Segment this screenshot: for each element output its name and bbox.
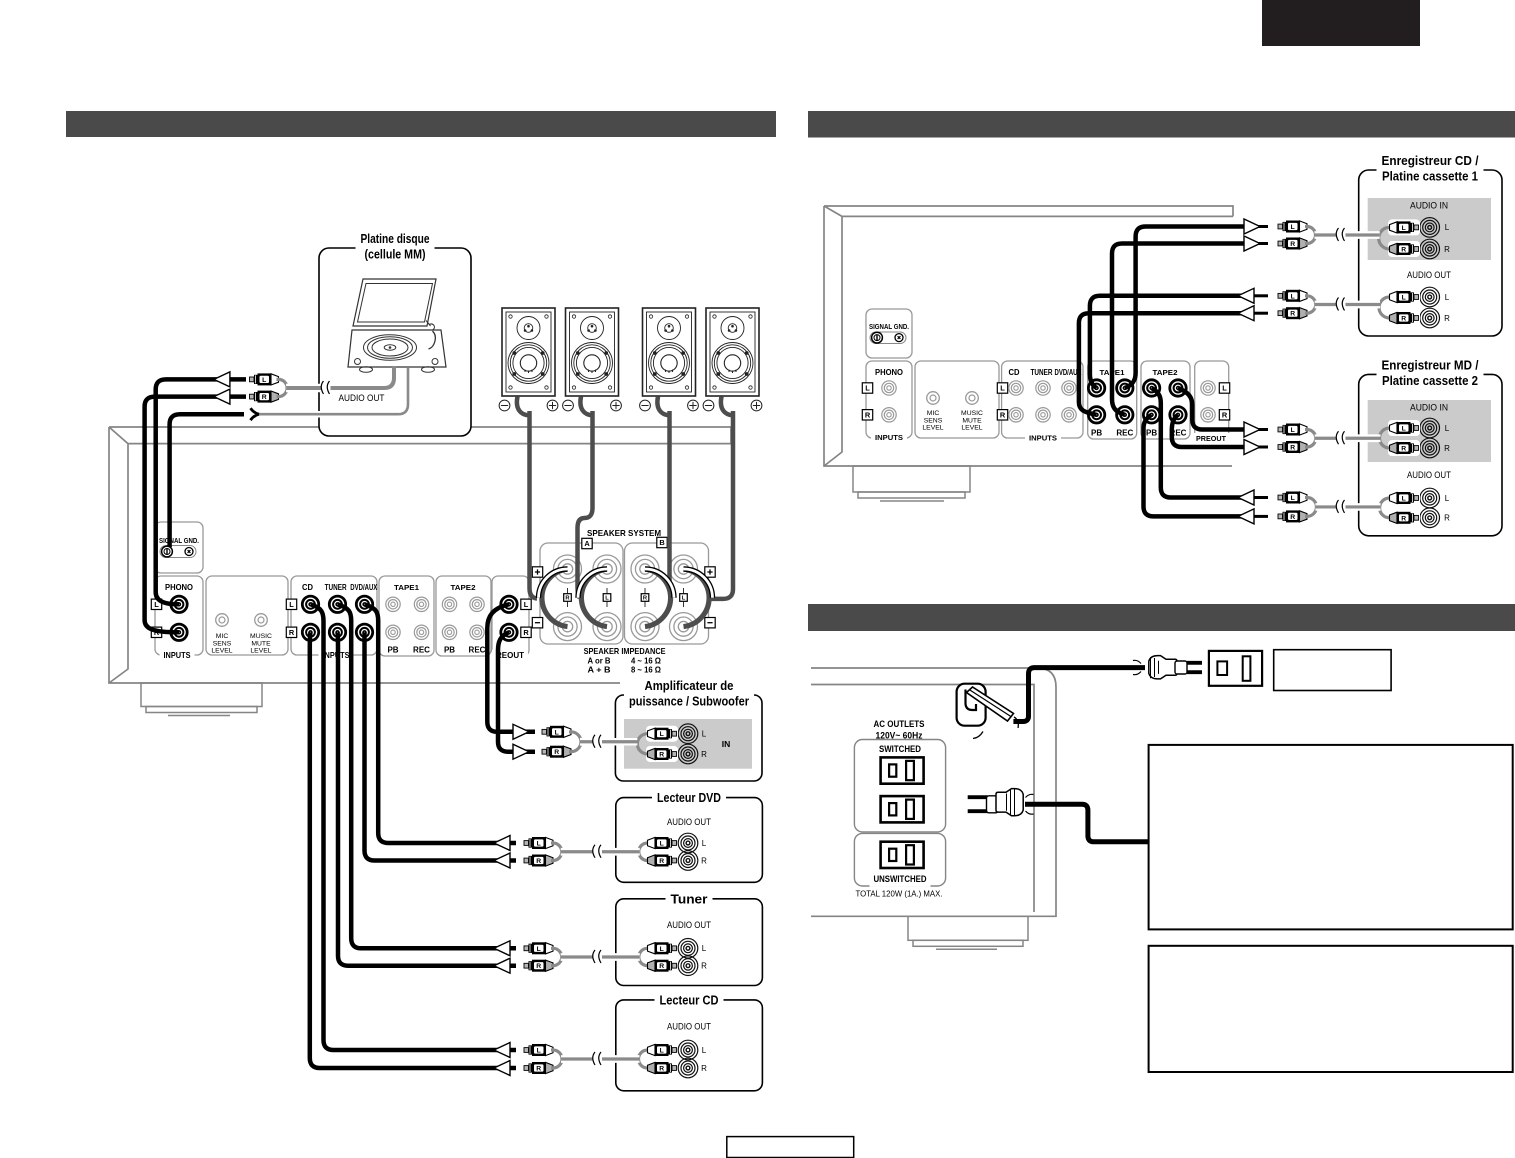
RCA jack TAPE1 PB R (amp 2) — [1088, 407, 1104, 423]
panel: TAPE2 (amp 1) — [436, 576, 491, 656]
arrow: Tuner L into amp — [494, 941, 510, 956]
box: Lecteur DVD — [616, 798, 763, 883]
wall outlet — [1209, 651, 1262, 686]
svg-text:MIC: MIC — [216, 633, 229, 640]
speaker AL wire loop — [580, 397, 593, 416]
RCA plug recorder 1 audio in L (amp side) — [1278, 221, 1307, 233]
RCA plug subwoofer L — [542, 726, 571, 738]
RCA jack CD R (amp 2) — [1009, 408, 1023, 422]
speaker AL — [566, 308, 619, 396]
ground fork terminal — [251, 408, 260, 420]
RCA plug recorder 1 audio in device R — [1390, 243, 1419, 255]
svg-text:REC: REC — [469, 646, 486, 655]
svg-text:R: R — [701, 1064, 707, 1073]
svg-text:TUNER: TUNER — [1031, 368, 1053, 377]
svg-text:LEVEL: LEVEL — [250, 648, 271, 655]
box: Tuner — [616, 899, 763, 986]
svg-text:L: L — [1402, 496, 1406, 503]
speaker terminal + col1 — [554, 555, 582, 583]
panel: SPEAKER SYSTEM B — [625, 543, 709, 644]
svg-text:L: L — [702, 839, 707, 848]
RCA jack TAPE1 PB R (amp 1) — [386, 625, 400, 639]
svg-text:R: R — [1290, 445, 1295, 452]
RCA plug recorder 1 audio in device L — [1390, 221, 1419, 233]
svg-text:REC: REC — [1116, 429, 1133, 438]
panel: SIGNAL GND (amp 2) — [866, 309, 912, 358]
wire: REOUT L to subwoofer — [487, 604, 535, 732]
mic sens level control (amp 2) — [927, 392, 940, 405]
halo plug recorder 2 audio in device L — [1388, 420, 1420, 436]
amplifier 1 foot — [141, 683, 262, 716]
RCA jack TAPE2 REC L (amp 1) — [470, 597, 484, 611]
RCA jack Lecteur CD OUT L — [678, 1040, 698, 1060]
turntable illustration — [348, 279, 446, 372]
channel marker R col3 — [644, 588, 646, 607]
wire: stub recorder2 in L — [1252, 428, 1268, 431]
wire: stub recorder1 in L — [1252, 225, 1268, 228]
svg-text:CD: CD — [302, 583, 313, 592]
svg-text:UNSWITCHED: UNSWITCHED — [874, 874, 927, 885]
RCA jack TAPE1 PB L (amp 1) — [386, 597, 400, 611]
speaker terminal + col2 — [593, 555, 621, 583]
node L (inputs amp 2) — [997, 383, 1007, 393]
cable: turntable audio out — [286, 384, 383, 393]
svg-text:L: L — [1445, 494, 1450, 503]
cable break: Tuner line — [593, 951, 602, 963]
RCA plug Lecteur CD L — [524, 1044, 553, 1056]
AC outlet switched 1 — [881, 757, 924, 783]
box: Enregistreur MD / Platine cassette 2 — [1359, 374, 1502, 535]
svg-text:L: L — [660, 731, 664, 738]
AC plug (wall) — [1133, 660, 1141, 674]
RCA jack TAPE2 PB L (amp 1) — [442, 597, 456, 611]
svg-text:SENS: SENS — [213, 640, 232, 647]
svg-text:PB: PB — [387, 646, 398, 655]
node L (PHONO amp 2) — [862, 383, 872, 393]
box: Enregistreur CD / Platine cassette 1 — [1359, 170, 1502, 336]
svg-text:R: R — [1000, 410, 1006, 419]
wire: speaker A-R to terminals — [530, 411, 538, 599]
svg-text:Platine disque: Platine disque — [361, 231, 430, 246]
cable loop: Tuner device plugs — [639, 948, 650, 965]
node R (PHONO amp 1) — [151, 627, 161, 637]
RCA jack PHONO L (amp 1) — [171, 596, 187, 612]
RCA jack TAPE2 PB L (amp 2) — [1143, 380, 1159, 396]
svg-text:MUSIC: MUSIC — [250, 633, 272, 640]
cable break: Lecteur DVD line — [593, 846, 602, 858]
panel: TAPE1 (amp 2) — [1088, 361, 1137, 439]
note box 2 — [1149, 946, 1513, 1072]
RCA plug subwoofer R — [542, 746, 571, 758]
RCA jack TAPE2 REC R (amp 2) — [1170, 407, 1186, 423]
node R (inputs amp 2) — [997, 410, 1007, 420]
svg-text:L: L — [1222, 384, 1227, 393]
terminal jumper cable col2 — [581, 569, 607, 627]
svg-text:PHONO: PHONO — [165, 583, 193, 592]
label box (wall outlet note) — [1274, 650, 1391, 691]
RCA jack AUDIO OUT L (Enregistreur MD /) — [1420, 488, 1440, 508]
RCA plug Tuner device L — [648, 942, 677, 954]
node L (PREOUT amp 2) — [1219, 383, 1229, 393]
arrow: recorder 1 audio out L — [1238, 288, 1254, 303]
cable loop: Lecteur CD plugs — [551, 1050, 562, 1068]
cable loop: subwoofer device plugs — [637, 734, 649, 754]
speaker terminal - col4 — [670, 613, 698, 641]
speaker AR wire loop — [517, 397, 530, 416]
arrow: Lecteur DVD L into amp — [494, 836, 510, 851]
arrow: to subwoofer R — [513, 744, 529, 759]
note box 1 — [1149, 745, 1513, 930]
RCA jack AUDIO IN L (Enregistreur MD /) — [1420, 418, 1440, 438]
cable loop: Lecteur DVD plugs — [551, 843, 562, 861]
svg-text:R: R — [554, 749, 559, 756]
svg-text:R: R — [865, 410, 871, 419]
wire: stub recorder2 out L — [1252, 496, 1268, 499]
speaker BL terminals — [703, 400, 762, 411]
svg-text:Platine cassette 2: Platine cassette 2 — [1382, 373, 1478, 388]
ground screw 1 (amp 2) — [872, 332, 883, 343]
RCA plug recorder 1 audio out device R — [1390, 312, 1419, 324]
speaker BL wire loop — [721, 397, 734, 416]
wire: Lecteur DVD L to amp — [365, 604, 517, 843]
svg-text:L: L — [555, 729, 559, 736]
RCA jack TUNER R (amp 1) — [329, 624, 345, 640]
gray zone: AUDIO IN (Enregistreur MD /) — [1368, 400, 1491, 462]
music mute level control (amp 2) — [966, 392, 979, 405]
node L (PHONO amp 1) — [151, 599, 161, 609]
speaker terminal + col4 — [670, 555, 698, 583]
svg-text:L: L — [1291, 293, 1295, 300]
amplifier 2 rear panel outline — [824, 206, 1233, 466]
channel marker R col1 — [567, 588, 569, 607]
svg-text:R: R — [536, 1066, 541, 1073]
svg-text:R: R — [1401, 247, 1406, 254]
cable break: recorder 2 audio out — [1337, 501, 1346, 513]
panel: PHONO (amp 2) — [866, 361, 912, 438]
svg-text:L: L — [1445, 223, 1450, 232]
RCA jack DVD/AUX L (amp 2) — [1062, 381, 1076, 395]
svg-text:R: R — [536, 963, 541, 970]
svg-text:R: R — [1290, 241, 1295, 248]
RCA plug recorder 1 audio out R (amp side) — [1278, 307, 1307, 319]
RCA plug Lecteur DVD L — [524, 837, 553, 849]
cable loop: recorder 2 audio out amp side — [1305, 498, 1316, 517]
svg-text:L: L — [702, 944, 707, 953]
node B (speaker system) — [657, 537, 667, 547]
RCA plug Tuner R — [524, 960, 553, 972]
RCA jack CD L (amp 1) — [302, 596, 318, 612]
power cord through bracket — [967, 687, 1014, 721]
RCA plug subwoofer device L — [648, 728, 677, 740]
svg-text:IN: IN — [722, 739, 731, 749]
node R (PREOUT amp 2) — [1219, 410, 1229, 420]
speaker terminal - col1 — [554, 613, 582, 641]
RCA jack AUDIO IN R (Enregistreur MD /) — [1420, 438, 1440, 458]
svg-text:CD: CD — [1009, 368, 1020, 377]
RCA plug Lecteur DVD device L — [648, 837, 677, 849]
svg-text:AUDIO OUT: AUDIO OUT — [339, 393, 385, 403]
svg-text:AUDIO OUT: AUDIO OUT — [667, 817, 711, 827]
wire: speaker A-L to terminals — [578, 411, 593, 598]
arrow: Tuner R into amp — [494, 958, 510, 973]
wire: TAPE1 REC R to recorder 1 — [1112, 244, 1244, 415]
RCA jack TAPE2 PB R (amp 2) — [1143, 407, 1159, 423]
RCA plug recorder 2 audio out L (amp side) — [1278, 492, 1307, 504]
RCA jack Lecteur DVD OUT L — [678, 833, 698, 853]
wire: turntable ground lead — [257, 411, 398, 418]
halo plug recorder 1 audio in device R — [1388, 241, 1420, 257]
RCA jack TAPE1 REC L (amp 2) — [1117, 380, 1133, 396]
svg-text:L: L — [660, 841, 664, 848]
RCA jack PREOUT R (amp 2) — [1201, 408, 1215, 422]
svg-text:R: R — [659, 1066, 664, 1073]
svg-text:LEVEL: LEVEL — [922, 425, 943, 432]
svg-text:INPUTS: INPUTS — [1029, 434, 1057, 443]
label INPUTS (phono amp 2) — [871, 432, 907, 445]
wire: stub recorder1 out R — [1252, 312, 1268, 315]
wire: Lecteur CD R to amp — [310, 632, 516, 1068]
wire: Tuner L to amp — [338, 604, 517, 948]
plus terminal label left — [532, 567, 542, 577]
svg-text:R: R — [1401, 316, 1406, 323]
svg-text:L: L — [682, 596, 686, 602]
music mute level control — [255, 614, 268, 627]
RCA plug Lecteur DVD R — [524, 855, 553, 867]
wire: phono R cable — [145, 397, 246, 633]
svg-text:L: L — [289, 600, 294, 609]
svg-text:AUDIO OUT: AUDIO OUT — [667, 920, 711, 930]
RCA jack TAPE2 PB R (amp 1) — [442, 625, 456, 639]
RCA jack DVD/AUX R (amp 1) — [356, 624, 372, 640]
RCA plug recorder 2 audio in R (amp side) — [1278, 441, 1307, 453]
RCA jack CD R (amp 1) — [302, 624, 318, 640]
svg-text:PHONO: PHONO — [875, 368, 903, 377]
cable break: turntable audio — [322, 382, 331, 394]
wire: recorder 2 out L to TAPE2 PB L — [1152, 388, 1244, 498]
power section header bar — [808, 604, 1515, 631]
svg-text:L: L — [660, 1048, 664, 1055]
cable loop: recorder 1 audio out amp side — [1305, 296, 1316, 313]
RCA jack TAPE1 REC R (amp 2) — [1117, 407, 1133, 423]
cable: Lecteur CD line — [561, 1055, 640, 1063]
svg-text:R: R — [1401, 515, 1406, 522]
RCA jack TAPE1 REC R (amp 1) — [414, 625, 428, 639]
RCA plug phono L — [250, 373, 279, 385]
svg-text:L: L — [537, 946, 541, 953]
svg-text:TAPE2: TAPE2 — [1153, 368, 1178, 377]
wire: accessory power cord — [1025, 804, 1149, 842]
svg-text:TAPE1: TAPE1 — [394, 583, 419, 592]
amplifier 3 rear panel outline — [811, 668, 1056, 917]
wire: recorder 2 out R to TAPE2 PB R — [1144, 415, 1245, 517]
box: Lecteur CD — [616, 1000, 763, 1091]
ground screw link plate (amp 1) — [160, 546, 196, 558]
RCA plug Lecteur DVD device R — [648, 855, 677, 867]
svg-text:L: L — [1402, 225, 1406, 232]
gray zone: AUDIO IN (Enregistreur CD /) — [1368, 198, 1491, 260]
cable loop: Tuner plugs — [551, 948, 562, 965]
RCA jack Tuner OUT L — [678, 939, 698, 959]
RCA jack AUDIO IN R (Enregistreur CD /) — [1420, 239, 1440, 259]
mic sens level control — [216, 614, 229, 627]
arrow: recorder 2 audio out R — [1238, 509, 1254, 524]
svg-text:L: L — [660, 946, 664, 953]
svg-text:PB: PB — [1146, 429, 1157, 438]
label INPUTS (phono amp 1) — [160, 649, 195, 663]
RCA plug recorder 2 audio in device L — [1390, 422, 1419, 434]
svg-text:8 ~ 16 Ω: 8 ~ 16 Ω — [631, 666, 662, 675]
cable: recorder 1 audio out line — [1315, 301, 1380, 309]
cable: recorder 2 audio in line — [1315, 434, 1381, 442]
svg-text:MUTE: MUTE — [962, 417, 982, 424]
svg-text:R: R — [1444, 245, 1450, 254]
cable loop: recorder 1 audio in amp side — [1305, 227, 1316, 244]
arrow: Lecteur DVD R into amp — [494, 853, 510, 868]
wire: stub recorder2 in R — [1252, 446, 1268, 449]
panel: CD TUNER DVD/AUX inputs (amp 2) — [1002, 361, 1083, 438]
svg-text:PB: PB — [1091, 429, 1102, 438]
cable: subwoofer line — [580, 738, 605, 746]
svg-text:L: L — [524, 600, 529, 609]
RCA plug recorder 2 audio out R (amp side) — [1278, 510, 1307, 522]
arrow: recorder 1 audio in L — [1244, 219, 1260, 234]
RCA jack TAPE2 REC R (amp 1) — [470, 625, 484, 639]
halo plug recorder 2 audio in device R — [1388, 440, 1420, 456]
label AUDIO OUT (turntable) — [335, 392, 389, 406]
svg-text:R: R — [289, 628, 295, 637]
RCA jack TAPE2 REC L (amp 2) — [1170, 380, 1186, 396]
RCA jack PHONO R (amp 1) — [171, 624, 187, 640]
RCA jack AUDIO OUT L (Enregistreur CD /) — [1420, 287, 1440, 307]
cable loop: subwoofer plugs — [569, 732, 581, 752]
ground screw 2 (amp 2) — [895, 334, 903, 342]
cable: subwoofer line into box — [604, 738, 637, 746]
svg-text:SWITCHED: SWITCHED — [879, 744, 921, 755]
svg-text:L: L — [702, 1046, 707, 1055]
label PREOUT (amp 2) — [1192, 433, 1230, 446]
RCA plug Lecteur CD device L — [648, 1044, 677, 1056]
amplifier 1 rear panel outline — [109, 427, 731, 683]
svg-text:MUSIC: MUSIC — [961, 410, 983, 417]
cable loop: recorder 2 audio in amp side — [1305, 430, 1316, 448]
RCA jack subwoofer IN L — [678, 724, 698, 744]
boxed letter R col1 — [564, 594, 572, 602]
wire: Lecteur DVD R to amp — [365, 632, 517, 860]
svg-text:DVD/AUX: DVD/AUX — [350, 583, 377, 592]
panel: PHONO (amp 1) — [155, 576, 203, 655]
panel: SWITCHED outlets — [854, 740, 945, 833]
svg-text:L: L — [1445, 293, 1450, 302]
svg-text:R: R — [659, 963, 664, 970]
page number box — [727, 1137, 854, 1158]
cable loop: recorder 2 audio out device side — [1380, 498, 1392, 518]
svg-text:R: R — [523, 628, 529, 637]
RCA jack PHONO L (amp 2) — [882, 381, 896, 395]
svg-text:L: L — [262, 377, 266, 384]
RCA plug recorder 2 audio in device R — [1390, 442, 1419, 454]
RCA jack Tuner OUT R — [678, 956, 698, 976]
RCA jack DVD/AUX R (amp 2) — [1062, 408, 1076, 422]
svg-text:puissance / Subwoofer: puissance / Subwoofer — [629, 694, 749, 709]
svg-text:SENS: SENS — [924, 417, 943, 424]
AC plug 2 (accessory) — [968, 797, 988, 811]
svg-text:R: R — [659, 858, 664, 865]
RCA plug recorder 1 audio in R (amp side) — [1278, 238, 1307, 250]
svg-text:L: L — [1291, 224, 1295, 231]
wire: TAPE2 REC L to recorder 2 — [1178, 388, 1244, 430]
cable loop: Lecteur CD device plugs — [639, 1050, 650, 1068]
panel: SPEAKER SYSTEM A — [540, 543, 623, 644]
svg-text:MIC: MIC — [927, 410, 940, 417]
halo plug recorder 1 audio in device L — [1388, 219, 1420, 235]
svg-text:INPUTS: INPUTS — [164, 650, 191, 660]
black corner tab top-right — [1262, 0, 1420, 46]
speaker terminal - col3 — [631, 613, 659, 641]
boxed letter L col4 — [680, 594, 688, 602]
halo plug subwoofer device L — [646, 726, 678, 742]
node R (inputs amp 1) — [286, 627, 296, 637]
arrow: recorder 2 audio in L — [1244, 422, 1260, 437]
wire: phono L cable — [156, 379, 246, 604]
AC outlet switched 2 — [881, 796, 924, 822]
svg-text:PB: PB — [444, 646, 455, 655]
svg-text:R: R — [1401, 446, 1406, 453]
svg-text:L: L — [1291, 495, 1295, 502]
plus terminal label right — [705, 567, 715, 577]
svg-text:Platine cassette 1: Platine cassette 1 — [1382, 169, 1478, 184]
cable break: recorder 2 audio in — [1337, 432, 1346, 444]
svg-text:R: R — [1444, 314, 1450, 323]
svg-text:R: R — [1222, 410, 1228, 419]
ground screw 1 (amp 1) — [162, 546, 173, 557]
minus terminal label right — [705, 618, 715, 628]
svg-text:LEVEL: LEVEL — [961, 425, 982, 432]
svg-text:MUTE: MUTE — [251, 640, 271, 647]
svg-text:AUDIO OUT: AUDIO OUT — [1407, 470, 1451, 480]
cable break: Lecteur CD line — [593, 1053, 602, 1065]
RCA plug subwoofer device R — [648, 748, 677, 760]
RCA jack Lecteur DVD OUT R — [678, 851, 698, 871]
svg-text:L: L — [537, 1048, 541, 1055]
svg-text:R: R — [1290, 311, 1295, 318]
boxed letter R col3 — [641, 594, 649, 602]
label SWITCHED — [875, 742, 925, 757]
RCA jack AUDIO OUT R (Enregistreur CD /) — [1420, 308, 1440, 328]
power cord holder bracket — [957, 684, 986, 726]
RCA plug recorder 1 audio out device L — [1390, 291, 1419, 303]
svg-text:R: R — [701, 750, 707, 759]
svg-text:R: R — [1290, 514, 1295, 521]
halo plug recorder 1 audio out device R — [1388, 310, 1420, 326]
wire: speaker B-L to terminals — [708, 411, 733, 599]
svg-text:PREOUT: PREOUT — [1196, 434, 1226, 443]
RCA jack CD L (amp 2) — [1009, 381, 1023, 395]
wire: AC power cord to wall — [1013, 668, 1145, 722]
svg-text:L: L — [1402, 426, 1406, 433]
speaker terminal - col2 — [593, 613, 621, 641]
panel: PREOUT (amp 2) — [1195, 361, 1229, 439]
svg-text:AUDIO IN: AUDIO IN — [1410, 201, 1448, 211]
node R (REOUT amp 1) — [521, 627, 531, 637]
svg-text:AC OUTLETS: AC OUTLETS — [874, 719, 925, 730]
halo plug subwoofer device R — [646, 746, 678, 762]
svg-text:INPUTS: INPUTS — [875, 433, 903, 442]
cable: turntable audio out elbow — [382, 366, 394, 388]
cable loop: recorder 2 audio in device side — [1380, 428, 1392, 448]
panel: MIC/MUSIC levels (amp 1) — [206, 576, 288, 655]
cable loop: recorder 1 audio out device side — [1379, 297, 1392, 318]
arrow: recorder 1 audio out R — [1238, 306, 1254, 321]
